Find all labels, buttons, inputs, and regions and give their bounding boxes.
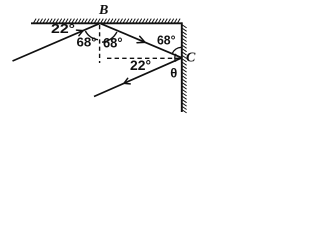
arrowhead on incident ray [77, 30, 84, 36]
svg-text:22°: 22° [130, 58, 151, 73]
right wall mirror surface [181, 22, 183, 112]
reflected ray from C [94, 58, 182, 97]
68-degree arc right of normal at B [102, 32, 117, 42]
arrowhead on reflected ray [124, 78, 130, 84]
normal (dashed) at C [107, 57, 181, 59]
incident ray to B [13, 23, 101, 61]
ceiling mirror surface [31, 22, 182, 24]
svg-text:θ: θ [170, 66, 177, 81]
arrowhead on ray BC [137, 36, 145, 42]
right wall mirror hatching [182, 25, 186, 113]
svg-text:22°: 22° [51, 21, 75, 36]
svg-text:68°: 68° [157, 33, 176, 48]
ray B to C [100, 23, 182, 58]
68-degree arc at C (ray to wall) [172, 47, 181, 53]
68-degree arc left of normal at B [85, 31, 98, 40]
arc across normal at C [175, 54, 176, 62]
svg-text:C: C [186, 50, 196, 65]
normal (dashed) at B [99, 25, 101, 63]
svg-text:68°: 68° [103, 36, 123, 51]
svg-text:B: B [98, 3, 108, 18]
ceiling mirror hatching [34, 19, 181, 23]
svg-text:68°: 68° [77, 35, 97, 50]
